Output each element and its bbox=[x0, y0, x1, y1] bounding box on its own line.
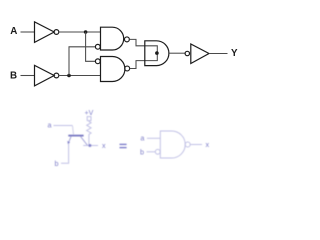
svg-text:a: a bbox=[48, 121, 52, 130]
wire A' horizontal bbox=[59, 31, 101, 33]
transistor Q1 emitter arrowhead bbox=[67, 141, 70, 144]
resistor R1 zigzag bbox=[87, 121, 91, 135]
svg-text:Y: Y bbox=[231, 48, 238, 59]
NAND gate U4 output bubble bbox=[125, 66, 130, 71]
svg-text:b: b bbox=[140, 148, 144, 157]
wire B' vertical up to upper gate bbox=[69, 47, 95, 76]
wire U5 output bbox=[169, 52, 185, 54]
inverter U2 output bubble bbox=[54, 73, 59, 78]
wire resistor to node x bbox=[88, 134, 90, 145]
svg-text:x: x bbox=[102, 141, 106, 150]
junction dot B' bbox=[67, 74, 71, 78]
supply terminal square bbox=[87, 117, 91, 121]
NAND gate U3 body (upper) bbox=[101, 27, 124, 50]
svg-text:+V: +V bbox=[85, 110, 94, 117]
inverter U6 input bubble bbox=[185, 51, 189, 55]
wire gate output to x bbox=[190, 144, 202, 146]
junction dot A' bbox=[84, 30, 88, 34]
wire B' horizontal bbox=[59, 75, 101, 77]
wire A input bbox=[21, 31, 35, 33]
wire to Y bbox=[209, 53, 228, 55]
gate output bubble bbox=[185, 142, 190, 147]
inverter U6 triangle bbox=[191, 44, 209, 64]
inverter U1 output bubble bbox=[54, 30, 59, 35]
equals sign bbox=[120, 144, 127, 147]
junction dot node x bbox=[88, 144, 91, 147]
AND gate U5 body (middle) bbox=[145, 41, 169, 66]
inverter U1 triangle bbox=[35, 22, 55, 43]
input bubble upper NAND bottom input bbox=[95, 44, 100, 49]
input bubble lower NAND top input bbox=[95, 59, 100, 64]
wire U4 output to middle gate bbox=[130, 53, 158, 68]
wire a to gate bbox=[147, 137, 160, 139]
NAND gate body (blue) bbox=[160, 131, 185, 158]
wire from a to base bbox=[54, 125, 73, 127]
gate input bubble on b bbox=[155, 149, 160, 154]
NAND gate U4 body (lower) bbox=[101, 57, 125, 82]
svg-text:A: A bbox=[10, 26, 17, 37]
transistor Q1 collector diagonal bbox=[81, 137, 88, 146]
wire node x horizontal bbox=[83, 145, 98, 147]
wire A' vertical down to lower gate bbox=[86, 32, 96, 61]
wire emitter down to b bbox=[61, 144, 69, 164]
svg-text:x: x bbox=[206, 140, 210, 149]
NAND gate U3 output bubble bbox=[124, 37, 129, 42]
wire U3 output to middle gate bbox=[129, 39, 157, 53]
svg-text:b: b bbox=[55, 159, 59, 168]
wire B input bbox=[21, 75, 35, 77]
junction dot inside AND gate bbox=[155, 51, 159, 55]
svg-text:a: a bbox=[140, 134, 144, 143]
inverter U2 triangle bbox=[35, 65, 55, 86]
transistor Q1 emitter diagonal bbox=[69, 137, 71, 143]
svg-text:B: B bbox=[10, 70, 17, 81]
transistor Q1 base bar bbox=[68, 135, 83, 137]
wire b to gate bbox=[147, 151, 156, 153]
